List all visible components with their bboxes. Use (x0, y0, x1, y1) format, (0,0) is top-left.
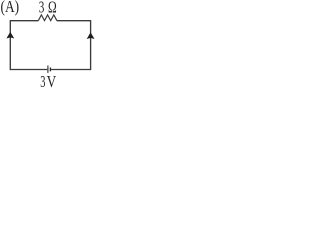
wire bottom-left (10, 69, 47, 71)
current arrow right (87, 32, 95, 39)
wire top-left (10, 20, 38, 22)
svg-text:V: V (47, 72, 57, 91)
svg-text:3: 3 (40, 72, 45, 91)
wire right (90, 20, 92, 70)
resistor R1 (38, 15, 57, 21)
battery long plate (47, 66, 49, 73)
wire left (9, 20, 11, 70)
wire top-right (57, 20, 91, 22)
svg-text:Ω: Ω (48, 0, 57, 17)
wire bottom-right (51, 69, 91, 71)
battery short plate (49, 68, 51, 72)
current arrow left (6, 32, 14, 39)
svg-text:(A): (A) (1, 0, 20, 16)
